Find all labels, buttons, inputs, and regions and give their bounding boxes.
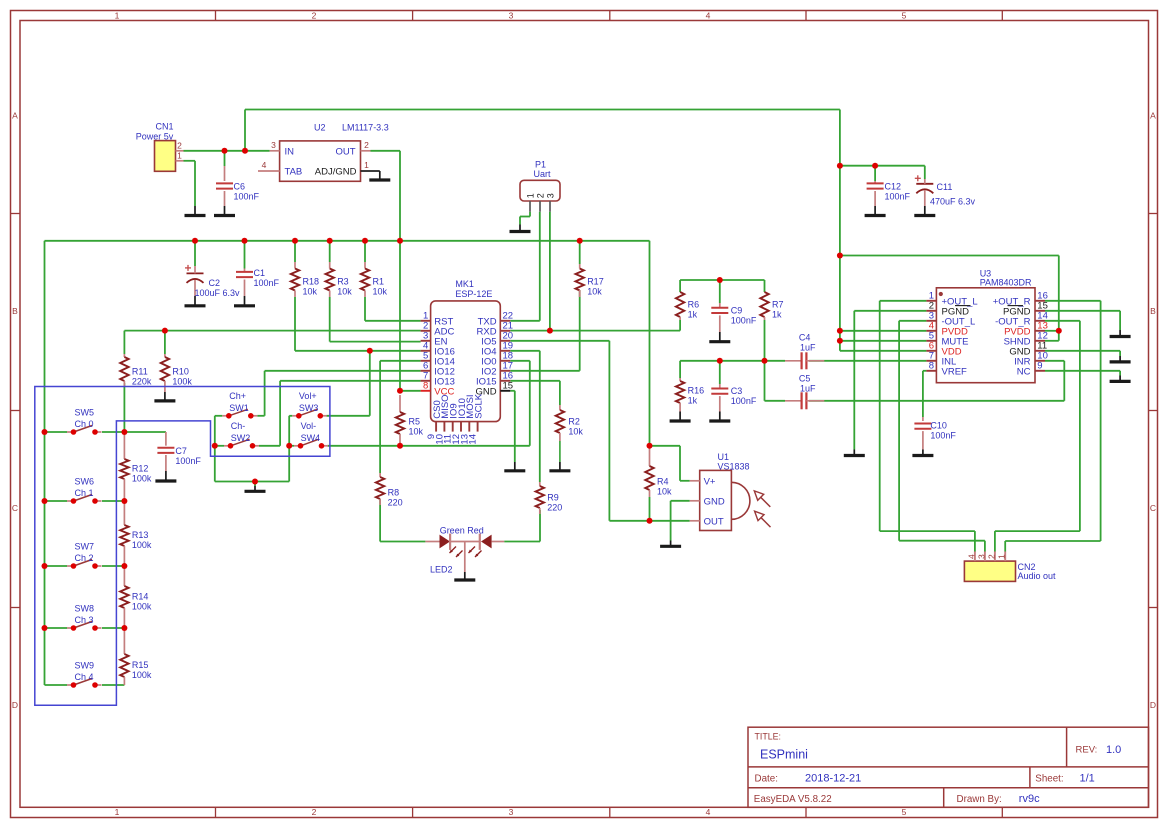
svg-text:LM1117-3.3: LM1117-3.3 — [342, 123, 389, 133]
svg-text:Sheet:: Sheet: — [1035, 774, 1063, 785]
svg-text:C11: C11 — [937, 182, 953, 192]
svg-text:NC: NC — [1017, 366, 1031, 377]
svg-text:C6: C6 — [234, 181, 246, 191]
svg-text:1: 1 — [115, 10, 120, 20]
ground C2 — [194, 296, 196, 306]
svg-text:1.0: 1.0 — [1106, 744, 1121, 756]
svg-text:1uF: 1uF — [800, 383, 816, 393]
svg-text:100nF: 100nF — [731, 315, 757, 325]
junction at 44.5,566 — [42, 563, 48, 569]
wire LED net — [380, 499, 540, 542]
junction at 649.5,520.8 — [647, 518, 653, 524]
LED LED2 Green Red — [425, 525, 504, 574]
svg-text:2: 2 — [177, 140, 182, 150]
switch SW1 Ch+ — [222, 391, 257, 419]
svg-text:1uF: 1uF — [800, 342, 816, 352]
svg-text:10k: 10k — [303, 286, 318, 296]
resistor R7 1k — [760, 292, 783, 320]
ground LED2 — [464, 572, 466, 580]
svg-text:Ch 2: Ch 2 — [75, 553, 94, 563]
junction at 255,481.5 — [252, 479, 258, 485]
amplifier U3 PAM8403DR — [926, 269, 1047, 383]
wire IO0 net — [328, 361, 530, 446]
wire key ladder rows — [45, 383, 166, 685]
svg-text:ESP-12E: ESP-12E — [455, 289, 492, 299]
capacitor C3 100nF — [711, 384, 757, 412]
svg-text:OUT: OUT — [704, 517, 724, 528]
switch SW2 Ch- — [224, 421, 259, 449]
svg-text:U1: U1 — [718, 452, 730, 462]
wire INL net (C3/C4/R7/R16) — [680, 361, 926, 384]
svg-text:R3: R3 — [337, 276, 349, 286]
svg-text:470uF 6.3v: 470uF 6.3v — [930, 196, 976, 206]
capacitor C2 100uF 6.3v — [185, 265, 240, 298]
wire ADC net — [124, 331, 420, 354]
title block — [748, 727, 1149, 807]
wire -OUT_R to CN2.2 — [995, 321, 1080, 552]
junction at 124.4,501 — [121, 498, 127, 504]
svg-text:2: 2 — [364, 140, 369, 150]
svg-text:R14: R14 — [132, 591, 149, 601]
module MK1 ESP-12E — [421, 279, 513, 445]
svg-text:3: 3 — [271, 140, 276, 150]
svg-text:TAB: TAB — [285, 167, 303, 178]
junction at 295,240.8 — [292, 238, 298, 244]
junction at 549.9,330.6 — [547, 328, 553, 334]
svg-text:VS1838: VS1838 — [718, 462, 750, 472]
wire IO14 net — [380, 361, 421, 473]
resistor R10 100k — [161, 354, 193, 392]
capacitor C4 1uF — [785, 332, 824, 369]
ground C10 — [922, 450, 924, 456]
connector CN1 Power 5v — [136, 122, 184, 172]
svg-text:4: 4 — [966, 554, 976, 559]
svg-text:SW5: SW5 — [75, 407, 95, 417]
wire IO16 net — [295, 297, 421, 416]
resistor R16 1k — [676, 378, 704, 412]
wire P1 pin1 to ground — [520, 212, 530, 225]
switch SW9 Ch 4 — [67, 660, 102, 687]
svg-text:100nF: 100nF — [254, 278, 280, 288]
svg-text:100k: 100k — [132, 670, 152, 680]
svg-text:C1: C1 — [254, 268, 266, 278]
svg-text:100nF: 100nF — [885, 192, 911, 202]
svg-text:C3: C3 — [731, 386, 743, 396]
junction at 245,150.8 — [242, 148, 248, 154]
svg-text:IN: IN — [285, 147, 295, 158]
svg-text:D: D — [12, 700, 18, 710]
wire SW1-SW4 block — [215, 416, 370, 486]
svg-text:220: 220 — [388, 497, 403, 507]
svg-text:C: C — [12, 503, 18, 513]
svg-text:2: 2 — [312, 807, 317, 817]
wire RST net — [365, 297, 421, 321]
svg-text:14: 14 — [468, 434, 479, 445]
svg-text:ADJ/GND: ADJ/GND — [315, 167, 357, 178]
svg-text:C9: C9 — [731, 305, 743, 315]
svg-text:Ch 0: Ch 0 — [75, 419, 94, 429]
svg-text:A: A — [1150, 111, 1156, 121]
ground C9 — [719, 332, 721, 342]
junction at 195,240.8 — [192, 238, 198, 244]
svg-text:10k: 10k — [657, 486, 672, 496]
IR receiver U1 VS1838 — [690, 452, 771, 531]
junction at 124.4,432 — [121, 429, 127, 435]
junction at 719.8,280 — [717, 277, 723, 283]
wire U3 PGND pin15 — [1045, 311, 1120, 330]
ground U3 NC pin9 — [1119, 376, 1121, 382]
capacitor C9 100nF — [711, 303, 757, 332]
svg-text:U2: U2 — [314, 123, 326, 133]
svg-text:VREF: VREF — [942, 366, 968, 377]
svg-text:rv9c: rv9c — [1019, 793, 1040, 805]
svg-text:REV:: REV: — [1076, 745, 1098, 756]
svg-text:TITLE:: TITLE: — [755, 732, 781, 742]
svg-text:10k: 10k — [568, 426, 583, 436]
svg-text:15: 15 — [503, 381, 514, 392]
svg-text:SW7: SW7 — [75, 541, 95, 551]
junction at 44.5,432 — [42, 429, 48, 435]
resistor R2 10k — [556, 405, 584, 462]
svg-text:Ch 3: Ch 3 — [75, 615, 94, 625]
svg-text:100uF 6.3v: 100uF 6.3v — [195, 288, 241, 298]
svg-text:SW2: SW2 — [231, 433, 251, 443]
switch SW8 Ch 3 — [67, 603, 102, 630]
svg-text:100nF: 100nF — [234, 191, 260, 201]
junction at 400,445.8 — [397, 443, 403, 449]
svg-text:OUT: OUT — [335, 147, 355, 158]
svg-text:8: 8 — [423, 381, 428, 392]
resistor R6 1k — [676, 292, 699, 320]
resistor R13 100k — [120, 501, 152, 566]
svg-text:R13: R13 — [132, 530, 149, 540]
wire IO2 net — [510, 290, 579, 371]
junction at 44.5,501 — [42, 498, 48, 504]
svg-text:10k: 10k — [587, 286, 602, 296]
resistor R14 100k — [120, 566, 152, 628]
resistor R4 10k — [645, 446, 672, 497]
svg-text:GND: GND — [704, 497, 725, 508]
svg-text:3: 3 — [509, 10, 514, 20]
wire IO12 net — [265, 371, 421, 416]
wire IO5 net — [510, 341, 689, 521]
svg-text:1k: 1k — [688, 309, 698, 319]
wire INR net (C5) — [765, 320, 1065, 401]
wire IO13 net — [280, 381, 421, 446]
ground U1 GND — [670, 541, 672, 547]
ground CN1 pin1 — [194, 206, 196, 216]
svg-text:MK1: MK1 — [455, 279, 474, 289]
svg-text:R1: R1 — [373, 276, 385, 286]
capacitor C7 100nF — [157, 432, 201, 471]
wire CN1 pin1 to ground — [184, 161, 196, 206]
svg-text:Uart: Uart — [534, 169, 552, 179]
ground U2 ADJ/GND — [361, 171, 391, 180]
resistor R5 10k — [396, 395, 424, 443]
svg-text:SW3: SW3 — [299, 403, 319, 413]
svg-text:100k: 100k — [132, 540, 152, 550]
svg-text:Power 5v: Power 5v — [136, 131, 174, 141]
wire ESP GND pin15 — [510, 391, 515, 462]
svg-text:1k: 1k — [688, 395, 698, 405]
junction at 289.2,445.8 — [286, 443, 292, 449]
svg-text:100nF: 100nF — [731, 396, 757, 406]
svg-text:3: 3 — [509, 807, 514, 817]
wire bus-to-IR column — [650, 241, 690, 521]
switch SW5 Ch 0 — [67, 407, 102, 434]
svg-text:C7: C7 — [175, 446, 187, 456]
svg-text:3: 3 — [546, 193, 556, 198]
wire U3 NC pin9 — [1045, 371, 1120, 376]
svg-text:2: 2 — [312, 10, 317, 20]
resistor R8 220 — [376, 473, 403, 507]
svg-text:3: 3 — [976, 554, 986, 559]
capacitor C11 470uF 6.3v — [915, 175, 976, 206]
svg-text:R16: R16 — [688, 385, 705, 395]
junction at 839.9,165.7 — [837, 163, 843, 169]
resistor R1 10k — [361, 262, 388, 297]
switch SW4 Vol- — [294, 421, 328, 449]
svg-text:C5: C5 — [799, 373, 811, 383]
svg-text:C2: C2 — [209, 278, 221, 288]
wire IO4 net — [510, 351, 540, 482]
switch SW7 Ch 2 — [67, 541, 102, 568]
junction at 369.8,350.8 — [367, 348, 373, 354]
blue group box switches — [35, 387, 330, 706]
svg-text:EasyEDA V5.8.22: EasyEDA V5.8.22 — [754, 794, 832, 805]
svg-text:R7: R7 — [772, 299, 784, 309]
svg-text:R15: R15 — [132, 660, 149, 670]
svg-text:R5: R5 — [409, 416, 421, 426]
svg-text:4: 4 — [262, 160, 267, 170]
ground C3 — [719, 412, 721, 422]
svg-text:1: 1 — [526, 193, 536, 198]
junction at 839.9,330.8 — [837, 328, 843, 334]
svg-text:PAM8403DR: PAM8403DR — [980, 278, 1032, 288]
svg-text:2018-12-21: 2018-12-21 — [805, 773, 861, 785]
switch SW3 Vol+ — [292, 391, 327, 419]
wire -OUT_L to CN2.3 — [899, 321, 985, 552]
connector CN2 Audio out — [964, 552, 1056, 582]
svg-text:1: 1 — [364, 160, 369, 170]
ground U3 GND pin11 — [1119, 356, 1121, 362]
junction at 839.9,340.8 — [837, 338, 843, 344]
wire EN net — [330, 297, 421, 342]
ground C11 — [924, 206, 926, 216]
svg-text:8: 8 — [929, 361, 934, 372]
svg-text:ESPmini: ESPmini — [760, 748, 808, 762]
wire TXD net — [510, 212, 540, 321]
ground C7 — [165, 471, 167, 481]
svg-text:Date:: Date: — [755, 774, 778, 785]
ground C1 — [244, 296, 246, 306]
ground C6 — [224, 206, 226, 216]
svg-text:SW6: SW6 — [75, 476, 95, 486]
svg-text:SW8: SW8 — [75, 603, 95, 613]
svg-text:R10: R10 — [172, 366, 189, 376]
svg-text:100nF: 100nF — [175, 456, 201, 466]
ground R2 — [559, 462, 561, 471]
switch SW6 Ch 1 — [67, 476, 102, 503]
capacitor C6 100nF — [216, 151, 260, 206]
junction at 224.5,150.8 — [222, 148, 228, 154]
svg-text:1/1: 1/1 — [1080, 773, 1095, 785]
svg-text:SW9: SW9 — [75, 660, 95, 670]
svg-text:R8: R8 — [388, 487, 400, 497]
svg-text:SCLK: SCLK — [473, 393, 484, 418]
wire 3V3 bus — [45, 151, 650, 685]
svg-text:9: 9 — [1037, 361, 1042, 372]
junction at 579.7,240.8 — [577, 238, 583, 244]
capacitor C12 100nF — [867, 181, 911, 206]
svg-text:C12: C12 — [885, 182, 902, 192]
junction at 1058.8,330.8 — [1056, 328, 1062, 334]
svg-text:1: 1 — [997, 554, 1007, 559]
svg-text:C10: C10 — [930, 421, 947, 431]
junction at 244.5,240.8 — [242, 238, 248, 244]
resistor R12 100k — [120, 432, 152, 501]
ground C12 — [874, 206, 876, 216]
junction at 839.9,255.5 — [837, 253, 843, 259]
resistor R18 10k — [291, 262, 319, 297]
wire U3 GND pin11 — [1045, 351, 1120, 356]
junction at 764.5,360.8 — [762, 358, 768, 364]
wire +OUT_L to CN2.4 — [880, 301, 975, 552]
svg-text:SW1: SW1 — [229, 403, 249, 413]
svg-text:B: B — [12, 306, 18, 316]
svg-text:4: 4 — [706, 807, 711, 817]
svg-text:R2: R2 — [568, 416, 580, 426]
capacitor C5 1uF — [785, 373, 824, 409]
junction at 875.1,165.7 — [872, 163, 878, 169]
svg-text:R4: R4 — [657, 476, 669, 486]
svg-text:220: 220 — [547, 502, 562, 512]
svg-text:R6: R6 — [688, 299, 700, 309]
regulator U2 LM1117-3.3 — [258, 123, 389, 182]
ground U3 PGND pin2 — [853, 450, 855, 456]
junction at 214.8,445.8 — [212, 443, 218, 449]
resistor R11 220k — [120, 354, 152, 387]
capacitor C10 100nF — [914, 417, 956, 450]
ground R16 — [679, 412, 681, 422]
svg-text:LED2: LED2 — [430, 565, 453, 575]
wire +OUT_R to CN2.1 — [1005, 301, 1100, 552]
ground R10 — [164, 392, 166, 401]
svg-text:5: 5 — [902, 807, 907, 817]
svg-text:1: 1 — [177, 151, 182, 161]
svg-text:CN1: CN1 — [155, 122, 173, 132]
svg-text:Ch 4: Ch 4 — [75, 672, 94, 682]
svg-text:D: D — [1150, 700, 1156, 710]
svg-text:100k: 100k — [132, 473, 152, 483]
svg-text:R18: R18 — [303, 276, 320, 286]
wire U1 GND — [671, 501, 690, 541]
wire RXD net — [510, 212, 680, 331]
svg-text:C: C — [1150, 503, 1156, 513]
svg-text:R9: R9 — [547, 492, 559, 502]
svg-text:Ch-: Ch- — [231, 421, 246, 431]
junction at 365,240.8 — [362, 238, 368, 244]
resistor R9 220 — [536, 482, 563, 514]
svg-text:2: 2 — [986, 554, 996, 559]
svg-text:Ch 1: Ch 1 — [75, 488, 94, 498]
junction at 124.4,566 — [121, 563, 127, 569]
junction at 44.5,628 — [42, 625, 48, 631]
resistor R15 100k — [120, 628, 152, 685]
svg-text:Green Red: Green Red — [440, 525, 484, 535]
svg-text:10k: 10k — [373, 286, 388, 296]
junction at 649.5,445.8 — [647, 443, 653, 449]
wire IO15 net — [510, 381, 560, 405]
wire 5V net top — [184, 110, 1059, 351]
ground SW group — [254, 486, 256, 491]
resistor R3 10k — [326, 262, 353, 297]
svg-text:1k: 1k — [772, 309, 782, 319]
svg-text:V+: V+ — [704, 477, 716, 488]
wire U3 PGND pin2 — [854, 311, 926, 450]
svg-text:Audio out: Audio out — [1018, 571, 1057, 581]
svg-text:Ch+: Ch+ — [229, 391, 246, 401]
ground P1 pin1 — [519, 225, 521, 232]
svg-text:Vol+: Vol+ — [299, 391, 317, 401]
junction at 400,240.8 — [397, 238, 403, 244]
capacitor C1 100nF — [236, 268, 280, 296]
junction at 164.9,330.6 — [162, 328, 168, 334]
svg-text:C4: C4 — [799, 332, 811, 342]
svg-text:R11: R11 — [132, 366, 148, 376]
junction at 719.8,360.8 — [717, 358, 723, 364]
wire VREF to C10 — [923, 371, 927, 417]
svg-text:10k: 10k — [337, 286, 352, 296]
svg-text:B: B — [1150, 306, 1156, 316]
junction at 124.4,628 — [121, 625, 127, 631]
svg-text:1: 1 — [115, 807, 120, 817]
svg-text:P1: P1 — [535, 159, 546, 169]
junction at 400,390.8 — [397, 388, 403, 394]
wire C9 top net — [680, 280, 764, 303]
svg-text:Drawn By:: Drawn By: — [957, 794, 1002, 805]
ground ESP GND — [514, 462, 516, 471]
svg-text:100k: 100k — [172, 376, 192, 386]
svg-text:100nF: 100nF — [930, 431, 956, 441]
header P1 Uart — [520, 159, 560, 211]
ground U3 PGND pin15 — [1119, 330, 1121, 337]
svg-text:R17: R17 — [587, 276, 604, 286]
svg-text:2: 2 — [536, 193, 546, 198]
svg-text:5: 5 — [902, 10, 907, 20]
junction at 329.7,240.8 — [327, 238, 333, 244]
svg-text:R12: R12 — [132, 463, 149, 473]
svg-text:SW4: SW4 — [301, 433, 321, 443]
svg-text:Vol-: Vol- — [301, 421, 317, 431]
svg-text:4: 4 — [706, 10, 711, 20]
resistor R17 10k — [576, 264, 604, 297]
svg-text:220k: 220k — [132, 376, 152, 386]
svg-text:100k: 100k — [132, 601, 152, 611]
svg-text:A: A — [12, 111, 18, 121]
svg-text:10k: 10k — [409, 426, 424, 436]
